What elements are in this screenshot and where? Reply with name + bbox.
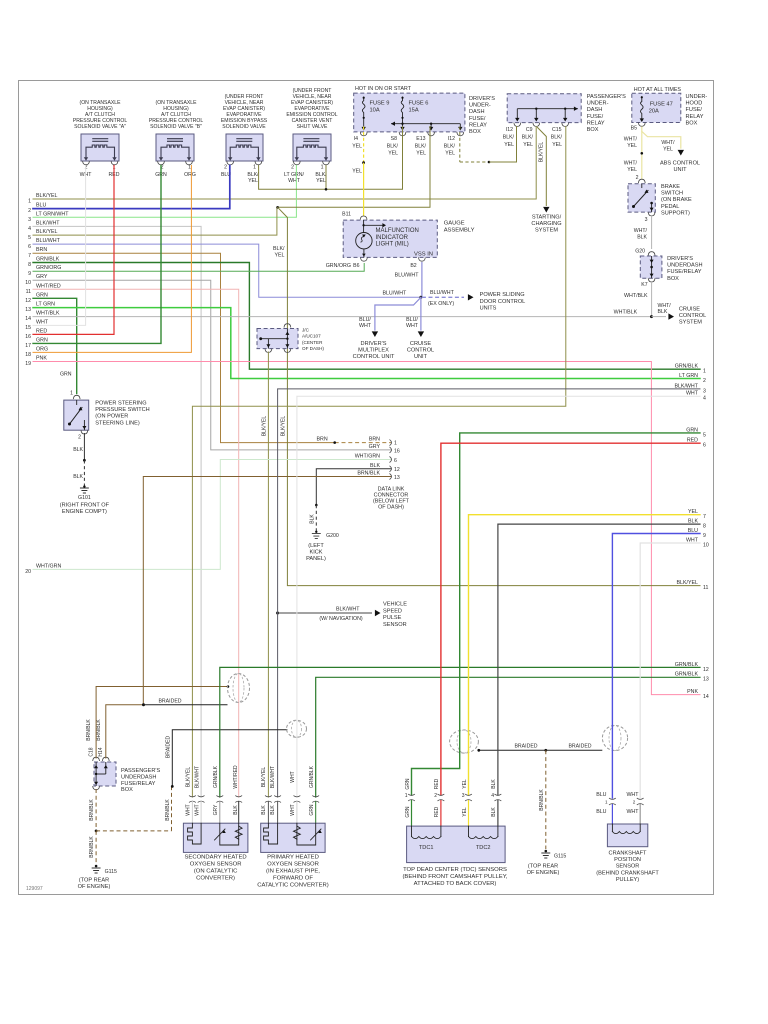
svg-text:GRY: GRY [369,444,381,450]
svg-text:1: 1 [703,369,706,375]
splice dot BLK/YEL [276,206,279,209]
svg-text:PRIMARY HEATED: PRIMARY HEATED [267,855,319,861]
svg-text:RED: RED [434,778,440,789]
svg-text:SOLENOID VALVE "B": SOLENOID VALVE "B" [150,124,202,130]
svg-text:OF ENGINE): OF ENGINE) [78,884,111,890]
svg-text:BLK: BLK [491,779,497,789]
driver's underdash fuse/relay box (G20/K7) [635,249,702,289]
svg-text:RED: RED [36,328,47,334]
ground G101 (right front of engine compt) [60,485,110,514]
svg-text:SENSOR: SENSOR [383,622,407,628]
svg-text:FUSE 47: FUSE 47 [650,102,673,108]
wire WHT/YEL from fuse 47 to brake switch and ABS control unit [642,127,681,148]
svg-text:HOOD: HOOD [686,101,703,107]
svg-text:FORWARD OF: FORWARD OF [273,876,313,882]
svg-text:GRN: GRN [405,778,411,790]
svg-text:BLK/YEL: BLK/YEL [36,229,58,235]
svg-text:BLU/WHT: BLU/WHT [430,290,455,296]
wire BLK from power steering switch to ground G101 [83,433,85,460]
svg-text:DASH: DASH [469,109,485,115]
svg-text:LT GRN: LT GRN [679,373,698,379]
svg-text:BLK: BLK [370,463,380,469]
svg-text:BLK: BLK [261,805,267,815]
solenoid valve D (evaporative emission control canister vent shut valve) [284,88,338,184]
svg-text:SENSOR: SENSOR [616,864,640,870]
svg-text:YEL: YEL [627,143,637,149]
svg-text:I12: I12 [448,136,455,142]
wire WHT/BLK from brake switch to G20 [651,215,653,249]
wire BRN/BLK H14 to braided junction [106,705,144,758]
svg-text:I12: I12 [506,127,513,133]
svg-text:11: 11 [703,585,708,591]
svg-text:WHT: WHT [626,809,639,815]
svg-text:14: 14 [25,316,31,322]
svg-text:OF ENGINE): OF ENGINE) [527,870,560,876]
svg-text:DASH: DASH [587,107,603,113]
svg-text:1: 1 [321,165,324,171]
svg-text:PRESSURE SWITCH: PRESSURE SWITCH [95,407,149,413]
svg-text:BRN: BRN [369,437,380,443]
wire BRN/BLK dashed to G115 middle [545,750,547,849]
svg-text:YEL: YEL [248,178,258,184]
gauge assembly box with malfunction indicator light (MIL) [326,212,475,269]
svg-text:YEL: YEL [663,147,673,153]
svg-text:WHT/BLK: WHT/BLK [614,310,638,316]
svg-text:BLK: BLK [491,807,497,817]
braided shield symbol crankshaft position sensor [602,725,627,750]
svg-text:BRAIDED: BRAIDED [166,736,172,759]
secondary heated oxygen sensor (on catalytic converter) [183,765,248,852]
svg-text:9: 9 [28,271,31,277]
primary heated oxygen sensor (in exhaust pipe forward of catalytic converter) [261,765,325,852]
svg-text:12: 12 [394,467,400,473]
svg-text:SECONDARY HEATED: SECONDARY HEATED [184,855,246,861]
svg-text:WHT: WHT [288,178,301,184]
svg-text:2: 2 [633,800,636,805]
svg-text:SHUT VALVE: SHUT VALVE [297,124,328,130]
svg-text:(BEHIND CRANKSHAFT: (BEHIND CRANKSHAFT [596,870,659,876]
svg-text:WHT/GRN: WHT/GRN [355,454,380,460]
svg-text:ABS CONTROL: ABS CONTROL [660,161,700,167]
svg-text:WHT: WHT [406,323,419,329]
svg-text:4: 4 [703,396,706,402]
wire BLK/YEL from J/C to primary oxygen sensor heater [267,352,269,797]
svg-text:11: 11 [26,289,31,295]
braided shield symbol primary oxygen sensor [287,720,307,737]
svg-text:BLK/: BLK/ [551,135,563,141]
svg-text:OF DASH): OF DASH) [378,505,404,511]
svg-text:GAUGE: GAUGE [444,221,465,227]
svg-text:YEL: YEL [462,779,468,789]
svg-text:WHT: WHT [186,804,192,815]
svg-text:YEL: YEL [352,144,362,150]
svg-text:LIGHT (MIL): LIGHT (MIL) [376,241,409,247]
svg-text:S8: S8 [391,136,397,142]
svg-text:CATALYTIC CONVERTER): CATALYTIC CONVERTER) [257,883,329,889]
ground G115 middle (top rear of engine) [527,850,567,876]
wire GRN/BLK from ECM pin 12 to secondary oxygen sensor [220,667,700,797]
svg-text:BRN: BRN [36,247,47,253]
svg-text:WHT: WHT [195,804,201,815]
svg-text:13: 13 [703,677,709,683]
svg-text:BLK/WHT: BLK/WHT [336,607,360,613]
svg-text:BLU: BLU [596,792,606,798]
svg-text:LT GRN/WHT: LT GRN/WHT [36,211,69,217]
svg-text:RED: RED [434,806,440,817]
wire GRN TDC1 to ECM pin 5 [412,433,701,795]
svg-text:GRN/BLK: GRN/BLK [36,257,60,263]
svg-text:BLK/YEL: BLK/YEL [186,767,192,788]
svg-text:(BEHIND FRONT CAMSHAFT PULLEY,: (BEHIND FRONT CAMSHAFT PULLEY, [402,874,507,880]
svg-text:BLK/: BLK/ [503,135,515,141]
svg-text:POWER STEERING: POWER STEERING [95,401,146,407]
right bus pin labels (ECM side) [674,364,708,700]
svg-text:(ON POWER: (ON POWER [95,414,128,420]
svg-text:BLK/YEL: BLK/YEL [262,416,268,437]
svg-text:10: 10 [703,542,709,548]
svg-text:YEL: YEL [445,151,455,157]
svg-text:WHT: WHT [290,771,296,782]
svg-text:PULSE: PULSE [383,615,402,621]
svg-text:CRANKSHAFT: CRANKSHAFT [609,851,647,857]
wire BLK to ground G200 [315,504,318,507]
svg-text:VEHICLE: VEHICLE [383,602,407,608]
svg-text:BLK: BLK [658,309,668,315]
svg-text:ORG: ORG [36,346,48,352]
wire WHT from ECM pin 4 to primary oxygen sensor [297,396,700,797]
svg-text:UNDERDASH: UNDERDASH [121,774,156,780]
svg-text:PEDAL: PEDAL [661,204,679,210]
svg-text:1: 1 [188,165,191,171]
diagram border frame [19,81,714,895]
svg-text:BRAIDED: BRAIDED [568,743,591,749]
svg-text:3: 3 [462,793,465,799]
svg-text:6: 6 [28,244,31,250]
svg-text:BLK: BLK [270,805,276,815]
wire BLK/YEL dashed from I12 driver's box to I12 passenger's box [459,127,461,163]
svg-text:WHT: WHT [626,792,639,798]
wire BLK/YEL from solenoid valves C/D pin 1 to S8 [259,127,403,190]
svg-text:UNDER-: UNDER- [469,103,491,109]
svg-text:BLK/: BLK/ [273,246,285,252]
svg-text:GRN/ORG: GRN/ORG [326,263,351,269]
junction dot WHT/BLK [650,315,653,318]
svg-text:WHT/BLK: WHT/BLK [36,311,60,317]
power steering pressure switch (on power steering line) [60,372,150,441]
svg-text:G115: G115 [554,854,566,860]
svg-text:GRN/BLK: GRN/BLK [213,765,219,788]
svg-text:SWITCH: SWITCH [661,191,683,197]
svg-text:BOX: BOX [686,120,698,126]
svg-text:SUPPORT): SUPPORT) [661,210,690,216]
svg-text:WHT/RED: WHT/RED [233,765,239,789]
svg-text:FUSE 9: FUSE 9 [370,101,390,107]
svg-text:ASSEMBLY: ASSEMBLY [444,227,475,233]
svg-text:YEL: YEL [416,151,426,157]
svg-text:BLK/: BLK/ [387,144,399,150]
wire BLK/YEL splice diagonal down to ECM pin 11 via J/C [278,207,700,585]
svg-text:C15: C15 [552,127,562,133]
svg-text:YEL: YEL [627,167,637,173]
wire BLU/WHT dashed to power sliding door control units (EX only) [422,296,464,298]
svg-text:FUSE/RELAY: FUSE/RELAY [121,781,156,787]
svg-text:BLK/WHT: BLK/WHT [36,220,60,226]
svg-text:DOOR CONTROL: DOOR CONTROL [480,299,526,305]
svg-text:B11: B11 [342,212,351,218]
svg-text:PNK: PNK [687,689,698,695]
svg-text:4: 4 [491,793,494,799]
svg-text:CHARGING: CHARGING [531,221,561,227]
svg-text:BRAIDED: BRAIDED [158,698,181,704]
svg-text:GRN/BLK: GRN/BLK [309,765,315,788]
svg-text:H14: H14 [98,747,104,756]
svg-text:(RIGHT FRONT OF: (RIGHT FRONT OF [60,502,110,508]
svg-text:B6: B6 [353,263,359,269]
svg-text:GRN: GRN [60,372,72,378]
svg-text:DRIVER'S: DRIVER'S [469,96,495,102]
svg-text:BLK/YEL: BLK/YEL [261,767,267,788]
svg-text:YEL: YEL [462,807,468,817]
svg-text:UNDER-: UNDER- [587,101,609,107]
svg-text:J/C: J/C [302,328,310,333]
svg-text:LT GRN: LT GRN [36,302,55,308]
svg-text:TDC2: TDC2 [476,845,491,851]
svg-text:UNDER-: UNDER- [686,94,708,100]
svg-text:BLU: BLU [36,203,46,209]
svg-text:(EX ONLY): (EX ONLY) [428,301,454,307]
top dead center (TDC) sensors [405,778,505,863]
svg-text:FUSE/: FUSE/ [469,116,486,122]
svg-text:CONTROL: CONTROL [679,313,706,319]
wire RED TDC1 to ECM pin 6 [441,443,700,795]
svg-text:BLK: BLK [310,514,316,524]
wire BRN/BLK C18 to braided shield of secondary sensor [96,687,228,759]
svg-text:14: 14 [703,694,709,700]
svg-text:INDICATOR: INDICATOR [376,235,409,241]
svg-text:WHT/GRN: WHT/GRN [36,563,61,569]
svg-text:DRIVER'S: DRIVER'S [361,341,387,347]
svg-text:I4: I4 [354,136,358,142]
svg-text:1: 1 [70,391,73,397]
svg-text:17: 17 [25,343,31,349]
svg-text:ATTACHED TO BACK COVER): ATTACHED TO BACK COVER) [414,881,497,887]
svg-text:WHT/: WHT/ [624,161,638,167]
svg-text:2: 2 [636,175,639,181]
wire YEL from I4 to MIL B11 [363,127,365,163]
data link connector rows and labels [143,437,409,705]
svg-text:1: 1 [28,199,31,205]
svg-text:BOX: BOX [469,129,481,135]
svg-text:WHT: WHT [290,804,296,815]
wire WHT/BLK from K7 to cruise control system junction [651,281,653,317]
svg-text:UNIT: UNIT [673,167,687,173]
arrow to cruise control system [652,316,667,318]
svg-text:BOX: BOX [121,787,133,793]
svg-text:DRIVER'S: DRIVER'S [667,256,693,262]
svg-text:SYSTEM: SYSTEM [679,320,702,326]
junction dot braided/BRN-BLK [142,703,145,706]
svg-text:TDC1: TDC1 [419,845,434,851]
svg-text:8: 8 [703,524,706,530]
wire YEL TDC2 to ECM pin 7 [469,515,701,795]
svg-text:3: 3 [28,217,31,223]
svg-text:2: 2 [434,793,437,799]
svg-text:16: 16 [394,448,400,454]
svg-text:2: 2 [85,165,88,171]
svg-text:PASSENGER'S: PASSENGER'S [587,94,626,100]
wire BLK/YEL from C9 to starting/charging system [538,128,547,206]
junction connector J/C A/UC107 (center of dash) [257,324,324,353]
braided shield symbol secondary oxygen sensor [228,674,250,703]
svg-text:PULLEY): PULLEY) [616,877,639,883]
svg-text:YEL: YEL [523,142,533,148]
svg-text:RELAY: RELAY [587,120,605,126]
wire BLU crankshaft sensor to ECM pin 9 [612,534,700,799]
svg-text:ENGINE COMPT): ENGINE COMPT) [62,509,107,515]
svg-text:BRN/BLK: BRN/BLK [89,799,95,821]
svg-text:MALFUNCTION: MALFUNCTION [376,228,419,234]
svg-text:GRN: GRN [36,337,48,343]
svg-text:YEL: YEL [552,142,562,148]
svg-text:PANEL): PANEL) [306,556,326,562]
svg-text:C18: C18 [89,747,95,756]
svg-text:VSS IN: VSS IN [414,252,433,258]
svg-text:B5: B5 [631,126,637,132]
svg-text:RELAY: RELAY [469,122,487,128]
wire BLK/WHT to vehicle speed pulse sensor (w/ navigation) [276,602,407,628]
svg-text:WHT/: WHT/ [624,137,638,143]
svg-text:BOX: BOX [667,276,679,282]
svg-text:BLU/WHT: BLU/WHT [382,290,407,296]
svg-text:19: 19 [25,361,31,367]
svg-text:CRUISE: CRUISE [410,341,431,347]
svg-text:13: 13 [25,307,31,313]
svg-text:KICK: KICK [309,549,322,555]
svg-text:16: 16 [25,334,31,340]
svg-text:WHT/RED: WHT/RED [36,283,61,289]
svg-text:BLK/YEL: BLK/YEL [539,142,545,163]
wire BLU/WHT to cruise control unit [420,297,422,330]
svg-text:2: 2 [291,165,294,171]
svg-text:BLK: BLK [73,447,83,453]
svg-text:12: 12 [703,667,709,673]
svg-text:YEL: YEL [352,169,362,175]
svg-text:20: 20 [25,569,31,575]
svg-text:HOT AT ALL TIMES: HOT AT ALL TIMES [634,87,682,93]
svg-text:TOP DEAD CENTER (TDC) SENSORS: TOP DEAD CENTER (TDC) SENSORS [403,867,507,873]
VSS junction dot [419,296,422,299]
svg-text:STEERING LINE): STEERING LINE) [95,420,140,426]
svg-text:WHT/: WHT/ [634,228,648,234]
svg-text:UNIT: UNIT [414,354,428,360]
brake switch (on brake pedal support) [628,179,692,223]
svg-text:WHT/: WHT/ [661,140,675,146]
junction dot valve D pin 1 [325,188,328,191]
svg-text:YEL: YEL [388,151,398,157]
svg-text:B2: B2 [410,263,416,269]
braided shield symbol TDC sensors [450,730,479,753]
braided drain line TDC to BRN/BLK and crankshaft shield [479,749,546,751]
svg-text:BLK/: BLK/ [522,135,534,141]
svg-text:G115: G115 [105,869,117,875]
wire BLK/YEL from E13 to splice [278,127,430,208]
under-hood fuse/relay box with FUSE 47 [631,87,708,132]
svg-text:BRAIDED: BRAIDED [514,743,537,749]
svg-text:(ON BRAKE: (ON BRAKE [661,197,692,203]
svg-text:1: 1 [605,800,608,805]
svg-text:5: 5 [28,235,31,241]
svg-text:2: 2 [224,165,227,171]
svg-text:3: 3 [645,217,648,223]
wire BLK/YEL solenoid valve D pin1 drop [325,166,327,190]
svg-text:GRY: GRY [36,274,48,280]
svg-text:FUSE/RELAY: FUSE/RELAY [667,269,702,275]
passenger's underdash fuse/relay box (C18/H14) [86,719,160,794]
svg-text:2: 2 [28,208,31,214]
svg-text:CONTROL: CONTROL [407,348,434,354]
svg-text:BLK: BLK [73,474,83,480]
svg-text:10: 10 [25,280,31,286]
solenoid valve C (evaporative emission bypass solenoid valve) [221,94,268,184]
svg-text:BLU/WHT: BLU/WHT [395,273,420,279]
svg-text:WHT: WHT [359,323,372,329]
svg-text:FUSE/: FUSE/ [686,107,703,113]
svg-text:BRN/BLK: BRN/BLK [165,799,171,821]
svg-text:7: 7 [703,514,706,520]
svg-text:3: 3 [703,388,706,394]
svg-text:OXYGEN SENSOR: OXYGEN SENSOR [267,862,319,868]
svg-text:12: 12 [25,298,31,304]
wire BLU/WHT from gauge VSS IN (B2) to junction [421,262,423,297]
svg-text:K7: K7 [641,282,647,288]
svg-text:BRN: BRN [317,437,328,443]
svg-text:ORG: ORG [184,172,196,178]
svg-text:1: 1 [394,441,397,447]
svg-text:UNDERDASH: UNDERDASH [667,263,702,269]
svg-text:GRN: GRN [36,292,48,298]
svg-text:BLK: BLK [637,235,647,241]
braided shield drain of primary sensor [172,730,287,787]
svg-text:WHT/BLK: WHT/BLK [624,293,648,299]
svg-text:BRN/BLK: BRN/BLK [86,719,92,741]
svg-text:(ON CATALYTIC: (ON CATALYTIC [194,869,238,875]
svg-text:(TOP REAR: (TOP REAR [79,878,109,884]
svg-text:OF DASH): OF DASH) [302,346,324,351]
svg-text:BRN/BLK: BRN/BLK [357,471,380,477]
svg-text:BLU: BLU [596,809,606,815]
svg-text:(TOP REAR: (TOP REAR [528,864,558,870]
svg-text:BRN/BLK: BRN/BLK [89,836,95,858]
svg-text:CONVERTER): CONVERTER) [196,876,235,882]
crankshaft position sensor [596,792,648,847]
wire BRN/BLK dashed from braided drain to G115 [96,830,171,832]
svg-text:GRN: GRN [405,806,411,818]
svg-text:SOLENOID VALVE "A": SOLENOID VALVE "A" [74,124,126,130]
svg-text:4: 4 [28,226,31,232]
wire WHT crankshaft sensor to ECM pin 10 [640,543,700,798]
svg-text:7: 7 [28,253,31,259]
svg-text:G20: G20 [635,249,645,255]
svg-text:1: 1 [253,165,256,171]
svg-text:(CENTER: (CENTER [302,340,323,345]
svg-text:(IN EXHAUST PIPE,: (IN EXHAUST PIPE, [266,869,320,875]
driver's under-dash fuse/relay box with FUSE 9 and FUSE 6 [352,86,495,157]
svg-text:20A: 20A [649,109,659,115]
svg-text:POWER SLIDING: POWER SLIDING [480,292,525,298]
svg-text:FUSE 6: FUSE 6 [409,101,429,107]
wire BLK/WHT from ECM pin 3 to primary oxygen sensor [278,389,700,797]
solenoid valve B (A/T clutch pressure control solenoid valve B) [149,100,204,178]
